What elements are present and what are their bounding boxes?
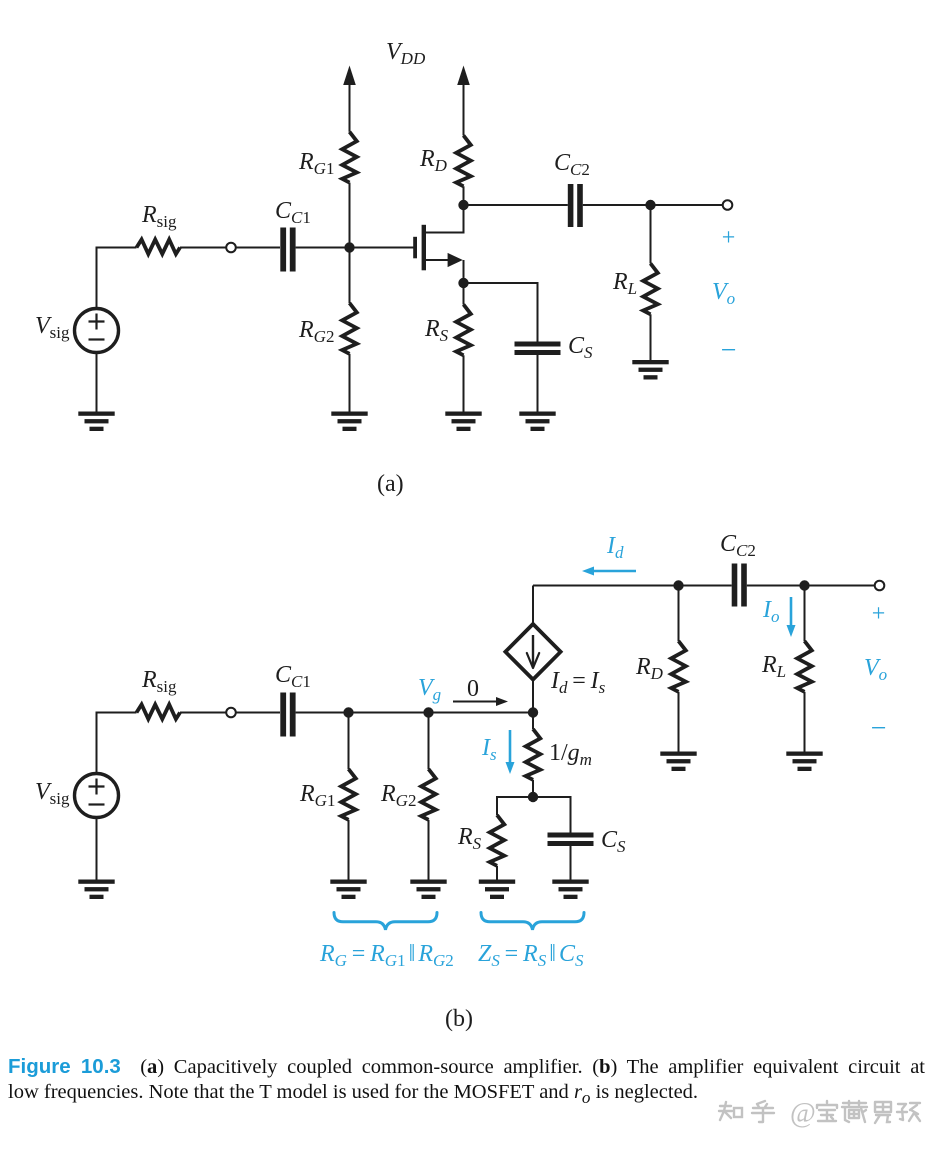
svg-text:−: − [721,335,737,366]
capacitor CS [515,342,561,356]
label Id (cyan) [606,533,624,562]
svg-text:RS: RS [457,824,482,853]
ground (under RL b) [786,752,822,772]
label Rsig [141,202,177,231]
resistor RG1 (b) [341,769,356,820]
wire: RL to ground [650,314,652,360]
svg-text:Vo: Vo [712,279,735,308]
svg-text:RG1: RG1 [298,149,334,178]
svg-text:CC1: CC1 [275,662,311,691]
ground (under RL) [632,360,668,380]
label Is [481,735,497,764]
svg-text:+: + [722,225,736,251]
capacitor CC2 [568,184,583,227]
watermark zhihu @baozangnanhai [719,1101,920,1123]
svg-text:0: 0 [467,676,479,702]
svg-text:(b): (b) [445,1006,473,1032]
wire: node to output terminal [651,204,723,206]
svg-text:RL: RL [612,269,637,298]
wire: source node to RS (b) [497,797,533,815]
label CC1 [275,198,311,227]
wire: junction down to RG2 [349,248,351,304]
voltage source Vsig [75,309,119,353]
resistor RL (b) [797,641,812,692]
svg-text:Vsig: Vsig [35,313,70,342]
node: gate T junction dot (b) [528,707,538,717]
wire: junction up to RG1 [349,183,351,248]
svg-text:VDD: VDD [386,39,426,68]
wire: node to CC1 [236,247,280,249]
resistor RS [456,305,471,356]
svg-text:Vsig: Vsig [35,779,70,808]
capacitor CC1 [280,228,295,272]
wire: RS to ground (b) [496,866,498,880]
label ZS = RS||CS (cyan) [478,941,584,970]
svg-text:RG2: RG2 [380,781,416,810]
power VDD arrow (left) [343,66,356,86]
arrow: zero current into gate [453,697,508,706]
capacitor CS (b) [548,833,594,847]
label RG2 [298,317,334,346]
node: output junction dot [645,200,655,210]
svg-text:Vo: Vo [864,655,887,684]
svg-text:CC2: CC2 [720,531,756,560]
label RG = RG1||RG2 (cyan) [319,941,454,970]
wire: RD to drain node [463,186,465,205]
label RS (b) [457,824,482,853]
watermark at sign [790,1098,816,1129]
svg-text:CS: CS [568,333,593,362]
svg-text:Rsig: Rsig [141,667,177,696]
label 1/gm [549,740,592,769]
figure caption line 1 [8,1055,925,1079]
svg-text:1/gm: 1/gm [549,740,592,769]
wire: source node to RS [463,283,465,305]
svg-text:CC2: CC2 [554,150,590,179]
wire: RG1 to ground (b) [348,820,350,880]
resistor RS (b) [490,815,505,866]
ground (under Vsig) [78,412,114,432]
wire: drain node to CC2 [464,204,568,206]
wire: source node to CS [464,283,538,342]
ground (under Vsig b) [78,880,114,900]
resistor RD (b) [671,641,686,692]
wire: CC2 to output terminal (b) [747,585,875,587]
ground (under RG2) [331,412,367,432]
svg-text:RS: RS [424,316,449,345]
wire: CC2 to output node [583,204,651,206]
ground (under CS) [519,412,555,432]
wire: Vsig bottom [96,352,98,412]
svg-text:CC1: CC1 [275,198,311,227]
brace: RG group (cyan) [334,913,437,930]
svg-text:RD: RD [419,146,448,175]
label output plus (b) [872,601,886,627]
label RL (b) [761,652,786,681]
node: RG2 junction dot (b) [423,707,433,717]
label zero current [467,676,479,702]
node: RD junction dot (b) [673,580,683,590]
resistor RG1 [342,132,357,183]
wire: down to RL (b) [804,586,806,642]
svg-text:Id: Id [606,533,624,562]
svg-text:+: + [872,601,886,627]
ground (under RG1 b) [330,880,366,900]
label output plus [722,225,736,251]
svg-text:RD: RD [635,654,664,683]
wire: Vsig bottom (b) [96,817,98,880]
wire: VDD to RD [463,83,465,136]
label output minus (b) [871,713,887,744]
wire: gate lead [350,247,414,249]
svg-text:Is: Is [481,735,497,764]
wire: source node to CS (b) [533,797,571,833]
label (a) [377,471,404,497]
wire: top wire down to current source [532,586,534,625]
wire: node to CC1 (b) [236,712,280,714]
wire: Vsig to Rsig [97,248,137,309]
ground (under RS b) [479,880,515,900]
label VDD [386,39,426,68]
wire: Rsig to node (b) [180,712,226,714]
wire: node down to RL [650,205,652,264]
node: open input terminal [226,243,236,253]
label Vg [418,675,441,704]
svg-text:(a): (a) [377,471,404,497]
svg-text:RL: RL [761,652,786,681]
label Vsig (b) [35,779,70,808]
label Io (cyan) [762,597,780,626]
ground (under RG2 b) [410,880,446,900]
label Rsig (b) [141,667,177,696]
label Id = Is [550,668,606,697]
wire: Rsig to input node [180,247,226,249]
label CC1 (b) [275,662,311,691]
svg-text:Vg: Vg [418,675,441,704]
current source Id (diamond) [505,624,560,680]
label RG2 (b) [380,781,416,810]
arrow: Id leftward (cyan) [582,567,636,576]
node: drain junction dot [458,200,468,210]
wire: T node to 1/gm [532,713,534,730]
wire: CC1 to gate junction [296,247,350,249]
wire: top rail to CC2 (b) [533,585,732,587]
wire: current source to T node [532,680,534,713]
svg-text:ZS = RS‖CS: ZS = RS‖CS [478,941,584,970]
power VDD arrow (right) [457,66,470,86]
arrow: Is downward (cyan) [506,730,515,774]
resistor 1/gm [526,729,541,780]
label RD [419,146,448,175]
brace: ZS group (cyan) [481,913,584,930]
label CC2 [554,150,590,179]
node: open terminal (b) [226,708,236,718]
label output minus [721,335,737,366]
wire: RL to ground (b) [804,692,806,752]
resistor RG2 [342,303,357,354]
voltage source Vsig (b) [75,774,119,818]
arrow: Io downward (cyan) [787,597,796,637]
wire: Vsig to Rsig (b) [97,713,137,775]
svg-text:Io: Io [762,597,780,626]
label RS [424,316,449,345]
svg-text:CS: CS [601,827,626,856]
figure caption line 2 [8,1081,698,1108]
wire: RG2 to ground (b) [428,820,430,880]
label (b) [445,1006,473,1032]
capacitor CC1 (b) [280,693,295,737]
resistor RL [643,264,658,315]
wire: down to RD (b) [678,586,680,642]
svg-text:Id = Is: Id = Is [550,668,606,697]
resistor Rsig [137,240,181,255]
label RD (b) [635,654,664,683]
ground (under RD b) [660,752,696,772]
resistor Rsig (b) [137,705,181,720]
wire: down to RG2 (b) [428,713,430,770]
wire: CS to ground (b) [570,846,572,880]
capacitor CC2 (b) [732,564,747,607]
label RG1 (b) [299,781,335,810]
svg-text:@: @ [790,1098,816,1129]
ground (under CS b) [552,880,588,900]
wire: RG1 to VDD arrow [349,83,351,132]
label CS [568,333,593,362]
wire: down to RG1 (b) [348,713,350,770]
node: RG1 junction dot (b) [343,707,353,717]
wire: 1/gm to source node [532,780,534,797]
label CC2 (b) [720,531,756,560]
label RG1 [298,149,334,178]
wire: RD to ground (b) [678,692,680,752]
ground (under RS) [445,412,481,432]
node: open output terminal [723,200,733,210]
resistor RD [456,136,471,187]
label Vo [712,279,735,308]
wire: RS to ground [463,355,465,411]
wire: CC1 to T node (b) [296,712,533,714]
node: source node dot (b) [528,792,538,802]
label RL [612,269,637,298]
svg-text:RG = RG1‖RG2: RG = RG1‖RG2 [319,941,454,970]
svg-text:−: − [871,713,887,744]
wire: RG2 to ground [349,354,351,412]
node: open output terminal (b) [875,581,885,591]
svg-text:RG1: RG1 [299,781,335,810]
node: gate junction dot [344,242,354,252]
transistor Q1 (MOSFET) [413,209,463,283]
label CS (b) [601,827,626,856]
svg-text:Rsig: Rsig [141,202,177,231]
svg-text:RG2: RG2 [298,317,334,346]
label Vsig [35,313,70,342]
resistor RG2 (b) [421,769,436,820]
wire: CS to ground [537,355,539,412]
label Vo (b) [864,655,887,684]
node: source junction dot [458,278,468,288]
node: RL junction dot (b) [799,580,809,590]
